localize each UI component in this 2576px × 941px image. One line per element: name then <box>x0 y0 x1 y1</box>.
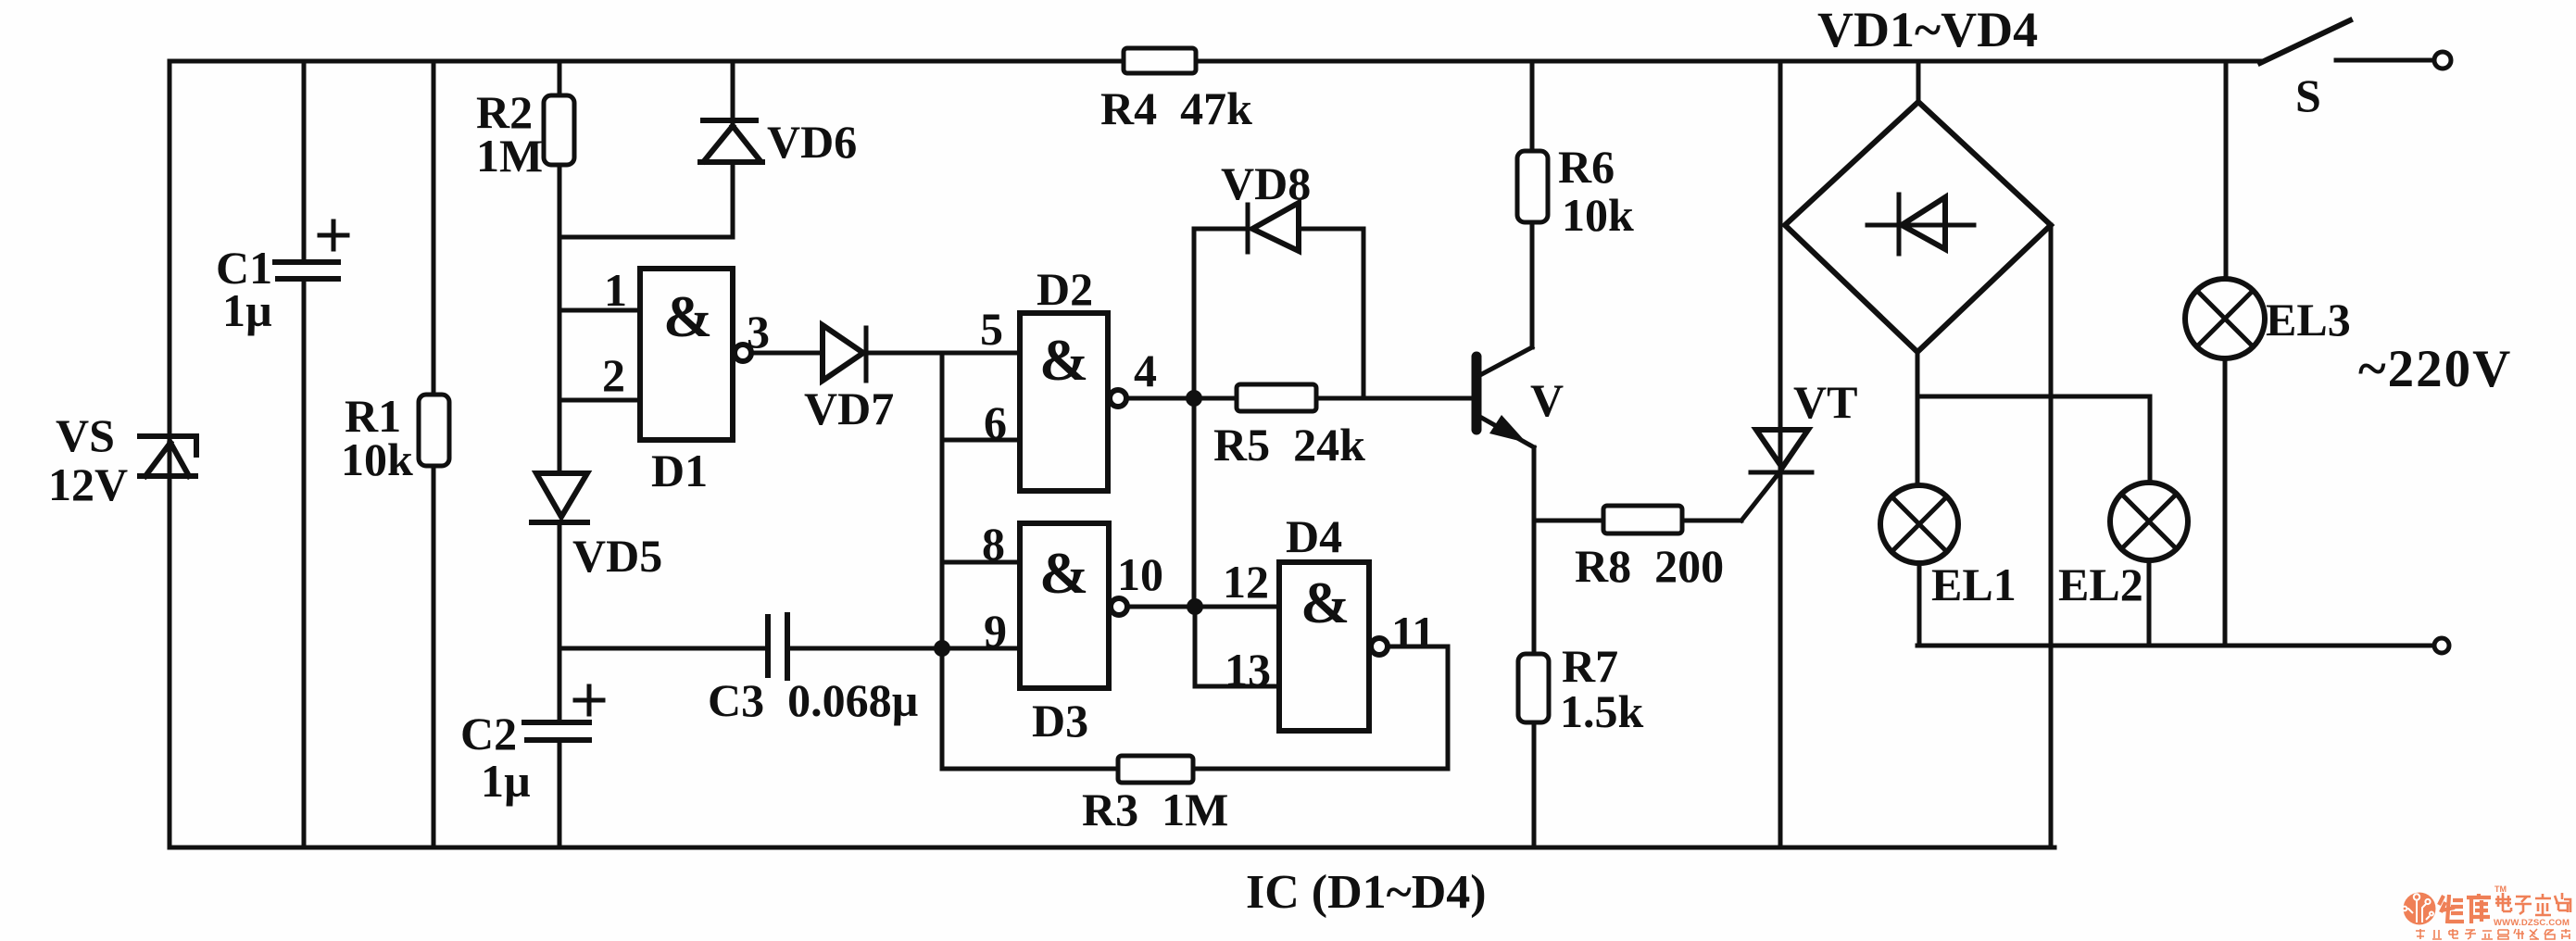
svg-text:12V: 12V <box>48 458 128 510</box>
thyristor VT <box>1751 61 1857 847</box>
svg-text:1.5k: 1.5k <box>1560 685 1644 737</box>
resistor R4 <box>1100 48 1252 134</box>
svg-text:EL1: EL1 <box>1931 558 2017 610</box>
svg-text:TM: TM <box>2494 885 2507 894</box>
wire node3 <box>751 351 823 356</box>
wire pin2 <box>559 398 640 403</box>
wire VD7 to pin5 <box>866 351 1020 356</box>
svg-text:VD6: VD6 <box>767 116 857 168</box>
svg-text:WWW.DZSC.COM: WWW.DZSC.COM <box>2494 918 2570 928</box>
diode VD5 <box>532 473 662 722</box>
junction C3 node <box>934 640 950 657</box>
svg-text:D1: D1 <box>651 445 708 496</box>
svg-text:VT: VT <box>1793 376 1857 428</box>
wire vertical input bus <box>940 353 945 648</box>
svg-text:D4: D4 <box>1286 510 1342 562</box>
svg-text:6: 6 <box>984 396 1007 448</box>
svg-text:12: 12 <box>1223 556 1269 608</box>
svg-text:R5 24k: R5 24k <box>1213 419 1365 470</box>
watermark logo <box>2403 885 2570 939</box>
wire VD6 to node <box>559 235 733 240</box>
resistor R5 <box>1213 384 1476 470</box>
svg-text:~220V: ~220V <box>2358 340 2512 398</box>
svg-text:&: & <box>1039 540 1088 606</box>
svg-text:VD1~VD4: VD1~VD4 <box>1817 2 2038 57</box>
svg-text:EL2: EL2 <box>2058 558 2143 610</box>
svg-text:R6: R6 <box>1558 141 1615 193</box>
wire pin6 <box>942 438 1020 443</box>
resistor R3 <box>942 648 1228 835</box>
terminal top <box>2434 52 2451 69</box>
nand gate D1 <box>640 269 770 496</box>
svg-text:EL3: EL3 <box>2266 294 2351 345</box>
junction node4 <box>1186 390 1202 407</box>
bridge rectifier VD1~VD4 <box>1785 2 2051 352</box>
wire node4 <box>1126 396 1237 401</box>
svg-text:VS: VS <box>56 409 115 461</box>
nand gate D4 <box>1279 510 1435 731</box>
resistor R7 <box>1518 640 1644 847</box>
resistor R8 <box>1534 472 1779 592</box>
wire emitter down <box>1532 447 1537 654</box>
svg-text:13: 13 <box>1225 644 1271 696</box>
junction node10 <box>1187 598 1203 615</box>
wire lamp bottom rail <box>1917 644 2432 648</box>
terminal bottom <box>2434 638 2449 653</box>
wire left rail <box>168 61 172 847</box>
transistor V <box>1476 222 1564 447</box>
wire pin13 <box>1195 607 1279 686</box>
svg-text:R3 1M: R3 1M <box>1082 784 1228 835</box>
wire bottom rail <box>170 846 2055 850</box>
svg-text:1M: 1M <box>476 130 543 182</box>
lamp EL2 <box>2058 483 2188 646</box>
svg-text:1: 1 <box>604 264 627 316</box>
resistor R2 <box>476 61 574 473</box>
svg-text:C3 0.068µ: C3 0.068µ <box>708 674 918 726</box>
wire node4 to node10 <box>1192 398 1197 607</box>
svg-text:5: 5 <box>980 303 1003 355</box>
diode VD8 loop <box>1194 157 1363 398</box>
wire top rail <box>170 59 2263 64</box>
svg-text:&: & <box>1301 570 1350 635</box>
lamp EL3 <box>2185 61 2351 646</box>
svg-text:VD8: VD8 <box>1221 157 1311 209</box>
wire pin9 <box>942 646 1020 651</box>
svg-text:D3: D3 <box>1032 695 1088 747</box>
svg-text:C2: C2 <box>460 708 517 759</box>
svg-text:D2: D2 <box>1037 263 1093 315</box>
resistor R1 <box>341 61 449 847</box>
svg-text:1µ: 1µ <box>481 755 531 807</box>
svg-text:1µ: 1µ <box>222 284 272 336</box>
svg-text:IC (D1~D4): IC (D1~D4) <box>1246 866 1487 919</box>
capacitor C1 <box>216 61 347 847</box>
wire pin1 <box>559 308 640 313</box>
wire pin8 <box>942 560 1020 565</box>
svg-text:V: V <box>1530 374 1564 426</box>
svg-text:3: 3 <box>747 306 770 358</box>
svg-text:R8 200: R8 200 <box>1575 540 1724 592</box>
wire node11 <box>1193 646 1448 769</box>
svg-text:10: 10 <box>1117 548 1163 600</box>
svg-text:&: & <box>1039 327 1088 393</box>
wire bridge right corner down <box>2049 225 2054 847</box>
nand gate D3 <box>1020 523 1163 747</box>
svg-text:R4 47k: R4 47k <box>1100 82 1252 134</box>
wire bridge bottom to lamps <box>1917 352 2150 485</box>
zener diode VS <box>48 409 196 510</box>
svg-text:4: 4 <box>1134 345 1157 396</box>
svg-text:&: & <box>663 283 712 349</box>
diode VD7 <box>804 325 894 434</box>
svg-text:S: S <box>2295 69 2321 121</box>
capacitor C2 <box>460 686 603 847</box>
wire node10 <box>1127 605 1279 609</box>
svg-text:9: 9 <box>984 605 1007 657</box>
capacitor C3 <box>559 615 942 726</box>
svg-text:VD5: VD5 <box>572 530 662 582</box>
resistor R6 <box>1517 61 1634 241</box>
nand gate D2 <box>1020 263 1157 491</box>
svg-text:10k: 10k <box>1562 189 1634 241</box>
svg-text:11: 11 <box>1391 607 1435 659</box>
svg-text:2: 2 <box>602 349 625 401</box>
diode VD6 <box>700 61 857 237</box>
switch S <box>2260 20 2431 121</box>
svg-text:8: 8 <box>982 518 1005 570</box>
svg-text:VD7: VD7 <box>804 383 894 434</box>
lamp EL1 <box>1880 485 2017 646</box>
svg-text:R7: R7 <box>1562 640 1618 692</box>
svg-text:10k: 10k <box>341 433 413 485</box>
